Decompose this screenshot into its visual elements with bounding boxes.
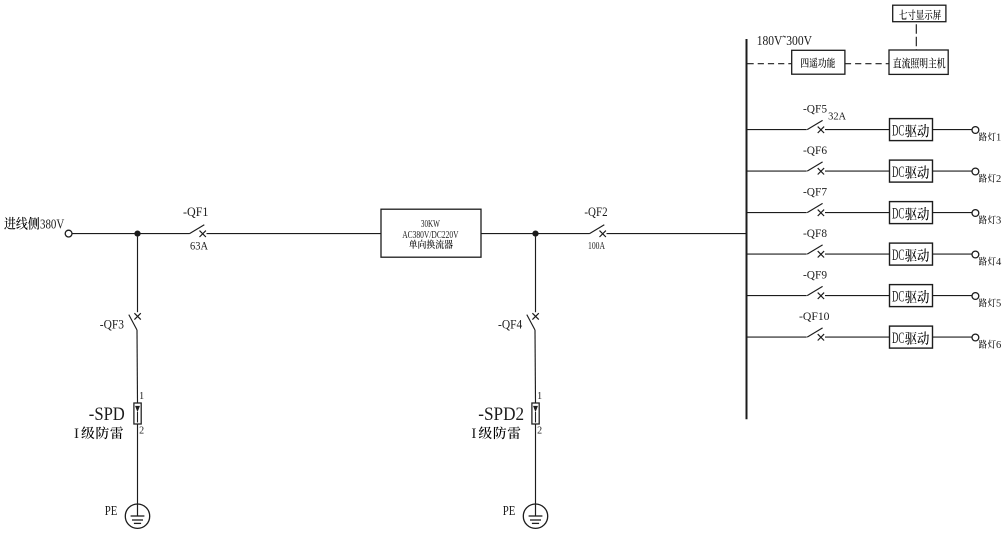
- svg-text:1: 1: [537, 391, 542, 402]
- wire bus to QF10: [748, 336, 807, 338]
- label 路灯4: [979, 257, 1002, 268]
- svg-text:-SPD2: -SPD2: [478, 404, 524, 425]
- PE ground electrode: [503, 503, 548, 529]
- wire DC驱动 2 to lamp terminal 2: [933, 170, 973, 172]
- terminal circle 路灯5: [972, 293, 979, 300]
- wire converter U1 to junction B: [481, 233, 536, 235]
- breaker QF9: [803, 270, 827, 299]
- box DC驱动 1 (DC driver): [890, 119, 933, 141]
- wire incoming terminal to junction A: [72, 233, 138, 235]
- box DC驱动 6 (DC driver): [890, 326, 933, 348]
- wire SPD2 to PE ground: [535, 424, 537, 504]
- breaker QF5: [803, 104, 846, 133]
- terminal circle 路灯4: [972, 251, 979, 258]
- wire QF1 to converter U1: [207, 233, 382, 235]
- svg-text:AC380V/DC220V: AC380V/DC220V: [402, 230, 459, 241]
- label I级防雷 for SPD2: [471, 426, 520, 442]
- breaker QF3: [100, 313, 141, 332]
- wire QF2 to DC bus: [607, 233, 747, 235]
- wire bus to QF8: [748, 253, 807, 255]
- svg-text:2: 2: [537, 426, 542, 437]
- wire QF9 to DC驱动 5: [825, 295, 890, 297]
- converter U1 box 30KW AC380V/DC220V: [381, 209, 481, 257]
- breaker QF8: [803, 228, 827, 257]
- svg-text:63A: 63A: [190, 239, 208, 253]
- wire bus to QF5: [748, 129, 807, 131]
- terminal circle 路灯3: [972, 210, 979, 217]
- label 路灯6: [979, 340, 1001, 351]
- wire bus to QF9: [748, 295, 807, 297]
- dashed wire 直流照明主机 to 七寸显示屏: [915, 24, 917, 50]
- svg-text:-QF3: -QF3: [100, 317, 124, 332]
- label 路灯2: [979, 174, 1001, 185]
- wire junction to QF3: [137, 237, 139, 313]
- svg-text:180V˜300V: 180V˜300V: [757, 34, 812, 49]
- svg-text:-SPD: -SPD: [89, 404, 125, 425]
- wire SPD to PE ground: [137, 424, 139, 504]
- svg-text:380V: 380V: [40, 217, 64, 232]
- DC bus 180V~300V: [747, 34, 813, 419]
- svg-text:-QF7: -QF7: [803, 187, 827, 199]
- wire bus to QF7: [748, 212, 807, 214]
- wire QF5 to DC驱动 1: [825, 129, 890, 131]
- svg-text:DC: DC: [892, 205, 904, 222]
- wire DC驱动 3 to lamp terminal 3: [933, 212, 973, 214]
- junction B (node to QF4/SPD2 branch): [532, 231, 538, 237]
- svg-text:4: 4: [996, 257, 1002, 268]
- surge arrester SPD (I级防雷): [89, 391, 144, 437]
- box 直流照明主机 (DC lighting host): [889, 50, 948, 74]
- svg-text:-QF4: -QF4: [498, 317, 523, 332]
- label 路灯1: [979, 132, 1001, 143]
- svg-text:3: 3: [996, 215, 1001, 226]
- junction A (node to QF3/SPD branch): [134, 231, 140, 237]
- svg-text:-QF1: -QF1: [183, 204, 208, 219]
- label 路灯3: [979, 215, 1001, 226]
- svg-text:-QF5: -QF5: [803, 104, 827, 116]
- svg-text:-QF6: -QF6: [803, 145, 827, 157]
- svg-text:-QF9: -QF9: [803, 270, 827, 282]
- svg-text:DC: DC: [892, 247, 904, 264]
- label I级防雷 for SPD: [74, 426, 123, 442]
- box DC驱动 3 (DC driver): [890, 202, 933, 224]
- breaker QF4: [498, 313, 539, 332]
- wire QF7 to DC驱动 3: [825, 212, 890, 214]
- svg-text:2: 2: [139, 426, 144, 437]
- wire DC驱动 6 to lamp terminal 6: [933, 336, 973, 338]
- wire QF3 to SPD: [136, 330, 139, 403]
- terminal circle 路灯2: [972, 168, 979, 175]
- svg-text:30KW: 30KW: [421, 219, 440, 230]
- PE ground electrode: [105, 503, 150, 529]
- wire DC驱动 1 to lamp terminal 1: [933, 129, 973, 131]
- svg-text:32A: 32A: [828, 110, 846, 122]
- svg-text:2: 2: [996, 174, 1001, 185]
- svg-text:PE: PE: [105, 503, 118, 518]
- breaker QF1 (63A): [183, 204, 208, 253]
- terminal circle 路灯6: [972, 334, 979, 341]
- svg-text:6: 6: [996, 340, 1001, 351]
- svg-text:1: 1: [139, 391, 144, 402]
- svg-text:I: I: [74, 426, 79, 442]
- dashed wire bus to 四遥功能: [748, 63, 792, 65]
- wire bus to QF6: [748, 170, 807, 172]
- node 进线侧380V incoming terminal label: [4, 217, 64, 233]
- svg-text:DC: DC: [892, 164, 904, 181]
- box DC驱动 5 (DC driver): [890, 285, 933, 307]
- svg-text:5: 5: [996, 298, 1001, 309]
- label 路灯5: [979, 298, 1001, 309]
- wire junction A to QF1: [138, 233, 190, 235]
- svg-text:1: 1: [996, 132, 1001, 143]
- breaker QF6: [803, 145, 827, 174]
- breaker QF10: [799, 311, 830, 340]
- svg-text:I: I: [471, 426, 476, 442]
- wire QF6 to DC驱动 2: [825, 170, 890, 172]
- dashed wire 四遥功能 to 直流照明主机: [845, 63, 889, 65]
- wire junction B to QF2: [536, 233, 590, 235]
- incoming terminal circle: [65, 230, 72, 237]
- svg-text:DC: DC: [892, 330, 904, 347]
- svg-text:PE: PE: [503, 503, 516, 518]
- terminal circle 路灯1: [972, 127, 979, 134]
- box 四遥功能: [792, 50, 845, 74]
- box DC驱动 4 (DC driver): [890, 243, 933, 265]
- svg-text:-QF10: -QF10: [799, 311, 830, 323]
- box 七寸显示屏 (7 inch display): [893, 5, 946, 22]
- wire junction to QF4: [535, 237, 537, 313]
- breaker QF2 (100A): [584, 205, 607, 252]
- breaker QF7: [803, 187, 827, 216]
- wire DC驱动 5 to lamp terminal 5: [933, 295, 973, 297]
- svg-text:100A: 100A: [588, 240, 605, 252]
- svg-text:-QF8: -QF8: [803, 228, 827, 240]
- wire QF10 to DC驱动 6: [825, 336, 890, 338]
- box DC驱动 2 (DC driver): [890, 160, 933, 182]
- wire QF4 to SPD2: [534, 330, 537, 403]
- surge arrester SPD2 (I级防雷): [478, 391, 542, 437]
- svg-text:-QF2: -QF2: [584, 205, 607, 219]
- wire DC驱动 4 to lamp terminal 4: [933, 253, 973, 255]
- wire QF8 to DC驱动 4: [825, 253, 890, 255]
- svg-text:DC: DC: [892, 122, 904, 139]
- svg-text:DC: DC: [892, 288, 904, 305]
